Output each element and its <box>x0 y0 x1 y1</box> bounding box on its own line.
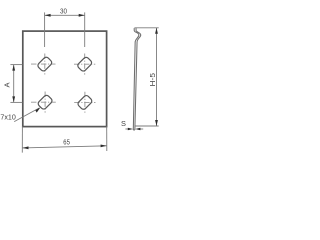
svg-text:A: A <box>2 82 11 88</box>
svg-text:65: 65 <box>63 138 70 147</box>
svg-text:H-5: H-5 <box>148 73 157 87</box>
svg-text:30: 30 <box>60 7 67 16</box>
svg-text:S: S <box>121 119 126 128</box>
svg-text:7x10: 7x10 <box>0 113 15 122</box>
